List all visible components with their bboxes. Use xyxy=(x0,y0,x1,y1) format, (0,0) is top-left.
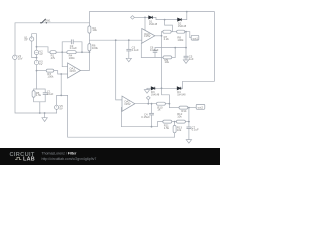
svg-text:10k: 10k xyxy=(177,128,182,132)
svg-text:1N4148: 1N4148 xyxy=(177,95,186,97)
svg-text:100k: 100k xyxy=(69,56,76,60)
svg-text:10k: 10k xyxy=(177,115,182,119)
svg-text:1N4148: 1N4148 xyxy=(178,26,187,28)
svg-text:10k: 10k xyxy=(165,60,170,64)
svg-text:http://circuitlab.com/c/2gvn4g: http://circuitlab.com/c/2gvn4g6p9v7 xyxy=(42,157,97,161)
svg-text:0.1uF: 0.1uF xyxy=(192,128,199,132)
svg-text:R14: R14 xyxy=(181,109,187,113)
svg-text:D2: D2 xyxy=(178,22,182,26)
svg-text:100k: 100k xyxy=(177,38,184,42)
svg-text:1N4148: 1N4148 xyxy=(149,24,158,26)
svg-text:10k: 10k xyxy=(92,28,97,32)
svg-text:1V: 1V xyxy=(39,62,43,66)
svg-text:10uF: 10uF xyxy=(47,92,54,96)
svg-text:47k: 47k xyxy=(51,56,56,60)
svg-text:LAB: LAB xyxy=(23,157,35,163)
svg-text:0.1uF: 0.1uF xyxy=(132,48,139,52)
svg-text:D4: D4 xyxy=(177,90,181,94)
svg-text:ThomasLorenz / Filter: ThomasLorenz / Filter xyxy=(42,152,77,156)
svg-text:2.2k: 2.2k xyxy=(164,37,170,41)
svg-text:100k: 100k xyxy=(92,46,99,50)
svg-text:5V: 5V xyxy=(24,38,28,42)
svg-text:1V: 1V xyxy=(39,52,43,56)
svg-text:0.15uF: 0.15uF xyxy=(150,48,159,52)
svg-text:1N4148: 1N4148 xyxy=(151,95,160,97)
svg-text:±15V: ±15V xyxy=(69,69,76,73)
svg-text:15V: 15V xyxy=(18,57,23,61)
svg-text:±15V: ±15V xyxy=(124,102,131,106)
svg-text:±15V: ±15V xyxy=(144,34,151,38)
svg-text:D3: D3 xyxy=(151,90,155,94)
svg-text:D1: D1 xyxy=(149,19,153,23)
svg-text:SW1: SW1 xyxy=(45,18,51,22)
svg-text:0.15uF: 0.15uF xyxy=(141,115,150,119)
svg-text:100k: 100k xyxy=(47,74,54,78)
svg-text:1.5k: 1.5k xyxy=(36,93,42,97)
svg-text:1.5k: 1.5k xyxy=(164,126,170,130)
svg-text:0.1uF: 0.1uF xyxy=(70,46,77,50)
svg-text:out1: out1 xyxy=(193,36,199,40)
svg-text:out2: out2 xyxy=(198,105,204,109)
svg-text:5V: 5V xyxy=(59,107,63,111)
svg-text:1uF: 1uF xyxy=(189,57,194,61)
